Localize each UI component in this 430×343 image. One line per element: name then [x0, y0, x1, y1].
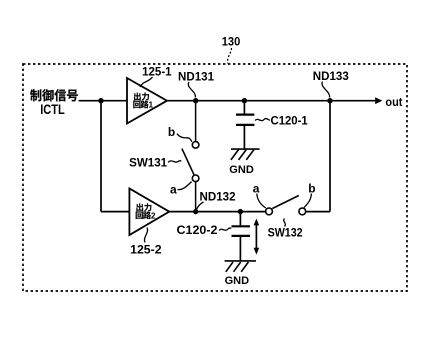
wire: vertical branch to amp2 [100, 101, 102, 212]
label 出力回路2 inside amp2 [136, 203, 143, 211]
wire: input to amp1 [79, 100, 129, 102]
node dot cap C120-1 top [242, 98, 247, 103]
wire: amp2 output to SW132 [168, 211, 266, 213]
leader for a (SW131) [178, 182, 192, 190]
wire: C120-1 bottom plate to GND [243, 126, 245, 149]
SW131 blade (open, from contact a) [182, 149, 194, 176]
node ND133 [327, 98, 332, 103]
wire: SW131 contact a down to ND132 [195, 182, 197, 212]
variable capacitance arrow [255, 223, 257, 252]
svg-text:130: 130 [222, 35, 241, 49]
leader for a (SW132) [257, 194, 266, 209]
svg-text:125-2: 125-2 [130, 242, 162, 256]
capacitor C120-1 [236, 113, 254, 115]
svg-text:1: 1 [149, 100, 154, 110]
ground symbol (C120-2) [225, 261, 256, 272]
leader tilde for C120-2 [219, 228, 231, 231]
svg-text:C120-1: C120-1 [271, 114, 309, 128]
leader for 130 [228, 48, 232, 64]
SW131 contact a circle [192, 175, 199, 182]
SW132 contact a circle [266, 208, 273, 215]
ground symbol (C120-1) [231, 149, 260, 160]
junction dot at input branch [98, 98, 103, 103]
wire: C120-2 bottom plate to GND [239, 237, 241, 260]
svg-text:GND: GND [229, 164, 254, 176]
wire: ND to C120-1 top plate [243, 101, 245, 114]
svg-text:b: b [308, 181, 315, 195]
leader for 125-1 [140, 77, 153, 87]
op-amp buffer 125-1 (output circuit 1) [127, 78, 167, 124]
leader for b (SW132) [304, 194, 311, 208]
SW132 blade (open, from contact a) [272, 196, 298, 209]
dashed boundary box 130 [23, 64, 407, 291]
node dot cap C120-2 top [238, 209, 243, 214]
leader for b (SW131) [177, 134, 192, 142]
node ND132 [193, 209, 198, 214]
wire: SW132 b to right riser [306, 211, 330, 213]
op-amp buffer 125-2 (output circuit 2) [129, 189, 169, 236]
SW131 contact b circle [192, 142, 199, 149]
out arrowhead [375, 97, 382, 104]
wire: ND132 rail to C120-2 top plate [239, 212, 241, 226]
leader for SW132 [284, 219, 286, 227]
svg-text:ND133: ND133 [313, 69, 349, 83]
wire: amp1 output to out arrow [166, 100, 376, 102]
svg-text:SW131: SW131 [129, 156, 167, 170]
svg-text:GND: GND [225, 275, 250, 287]
svg-text:ICTL: ICTL [40, 102, 64, 117]
leader for ND133 [322, 82, 330, 98]
leader for SW131 [168, 161, 181, 163]
wire: ND131 down to SW131 contact b [195, 101, 197, 142]
svg-text:125-1: 125-1 [142, 64, 172, 78]
leader for ND132 [197, 202, 204, 209]
label 出力回路1 inside amp1 [134, 93, 141, 101]
leader for 125-2 [144, 228, 147, 243]
svg-text:C120-2: C120-2 [177, 223, 218, 237]
leader tilde for C120-1 [255, 119, 270, 121]
svg-text:a: a [170, 183, 177, 197]
svg-text:ND131: ND131 [178, 70, 214, 84]
wire: right riser ND133 down [329, 101, 331, 212]
svg-text:SW132: SW132 [268, 226, 303, 240]
svg-text:b: b [168, 125, 175, 139]
svg-text:2: 2 [151, 210, 156, 220]
svg-text:out: out [385, 95, 402, 109]
svg-text:a: a [253, 181, 260, 195]
SW132 contact b circle [299, 208, 306, 215]
leader for ND131 [188, 82, 195, 98]
capacitor C120-2 (variable) [232, 225, 251, 227]
node ND131 [193, 98, 198, 103]
svg-text:ND132: ND132 [200, 189, 236, 203]
wire: branch to amp2 input [101, 211, 130, 213]
label 制御信号 ICTL (control signal) [30, 89, 41, 101]
